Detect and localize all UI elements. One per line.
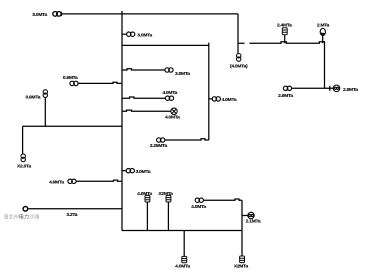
motor M3 — [333, 85, 340, 92]
transformer T2 — [127, 32, 135, 36]
wire stub W15 — [122, 33, 127, 35]
wire leg W28 — [284, 35, 286, 43]
transformer T1 — [53, 12, 62, 17]
transformer T11 — [68, 179, 76, 183]
svg-text:2.25MTa: 2.25MTa — [150, 143, 168, 149]
transformer T4 — [43, 90, 47, 98]
wire stub W20 — [122, 170, 127, 172]
svg-text:4.0MTa: 4.0MTa — [137, 191, 152, 197]
wire horizontal W6 — [291, 87, 334, 89]
wire horizontal W10 — [165, 139, 209, 140]
load L4 — [240, 256, 245, 263]
svg-text:3.0MTa: 3.0MTa — [136, 169, 151, 175]
wire W21 — [76, 180, 122, 181]
transformer T5 — [21, 154, 25, 162]
svg-text:4.0MTa: 4.0MTa — [191, 204, 206, 210]
svg-text:4.0MTa: 4.0MTa — [162, 90, 177, 96]
wire leg W24 — [167, 202, 169, 231]
generator G2 — [23, 207, 28, 212]
wire W16 — [78, 82, 122, 83]
wire bottom horizontal W14 — [122, 230, 242, 232]
wire vertical W8 — [208, 43, 210, 140]
svg-text:4.0MTa: 4.0MTa — [222, 97, 237, 103]
wire W18 — [122, 97, 166, 98]
wire leg W23 — [146, 202, 148, 231]
wire top horizontal W1 — [61, 13, 238, 15]
svg-text:3.0MTa: 3.0MTa — [32, 12, 47, 18]
wire horizontal W7 — [122, 44, 209, 46]
transformer T8 — [212, 97, 220, 101]
transformer T12 — [195, 198, 203, 202]
svg-text:2.0MTa: 2.0MTa — [343, 87, 358, 93]
svg-text:2.9MTa: 2.9MTa — [278, 93, 293, 99]
wire stub W9 — [209, 98, 213, 100]
wire W26 — [204, 199, 242, 256]
transformer T6 — [165, 68, 173, 72]
load L2 — [166, 195, 171, 202]
svg-text:4.0MTa: 4.0MTa — [165, 115, 180, 121]
svg-text:0.9MTa: 0.9MTa — [63, 75, 78, 81]
svg-text:X2MTa: X2MTa — [234, 264, 249, 270]
wire horizontal W11 — [23, 125, 122, 127]
motor M1 — [171, 108, 177, 114]
load L3 — [182, 256, 187, 262]
svg-text:0.9MTa: 0.9MTa — [25, 94, 40, 100]
transformer T7 — [165, 96, 173, 100]
svg-text:3.0MTa: 3.0MTa — [137, 33, 152, 39]
svg-text:4.0MTa: 4.0MTa — [49, 180, 64, 186]
load L5 — [282, 28, 287, 35]
load L1 — [145, 195, 150, 202]
motor M2 — [248, 212, 254, 218]
wire leg W29 — [322, 36, 324, 44]
wire W19 — [122, 110, 171, 111]
wire horizontal W4 — [238, 42, 325, 43]
wire W17 — [122, 69, 165, 70]
wire main bus vertical W2 — [121, 11, 123, 231]
node tick N1 — [329, 86, 331, 91]
wire generator feeder W22 — [28, 208, 122, 210]
wire vertical W12 — [22, 126, 24, 154]
svg-text:3.2Ta: 3.2Ta — [66, 212, 77, 218]
transformer T9 — [157, 138, 165, 142]
wire vertical W5 — [324, 43, 326, 88]
transformer T3 — [70, 81, 78, 85]
transformer T13 — [237, 54, 241, 62]
wire leg W25 — [183, 231, 185, 257]
generator G1 — [320, 28, 325, 35]
svg-text:X2MTa: X2MTa — [158, 191, 173, 197]
svg-text:2.MTa: 2.MTa — [317, 23, 330, 29]
svg-text:X2.0Ta: X2.0Ta — [17, 164, 31, 170]
wire vertical W13 — [44, 97, 46, 126]
wire vertical drop W3 — [237, 14, 239, 54]
svg-text:2.4MTa: 2.4MTa — [277, 23, 292, 29]
svg-text:2.1MTa: 2.1MTa — [246, 218, 261, 224]
svg-text:4.0MTa: 4.0MTa — [175, 263, 190, 269]
transformer T10 — [126, 169, 134, 173]
svg-text:3.0MTa: 3.0MTa — [175, 71, 190, 77]
transformer T14 — [283, 86, 291, 90]
svg-text:海北州电力沙滩: 海北州电力沙滩 — [4, 213, 40, 220]
svg-text:(4.0MTa): (4.0MTa) — [230, 64, 248, 70]
wire stub W27 — [242, 215, 248, 217]
